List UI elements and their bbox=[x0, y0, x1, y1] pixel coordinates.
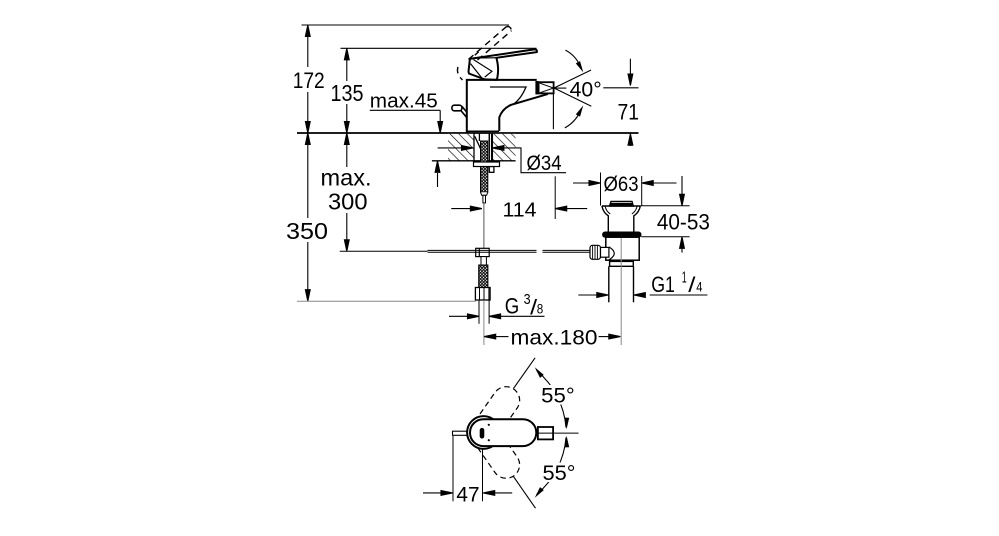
hose-end reference line bbox=[297, 300, 476, 302]
svg-text:G: G bbox=[505, 294, 520, 319]
svg-text:55°: 55° bbox=[543, 461, 576, 485]
dimension 135 bbox=[344, 48, 349, 133]
pop-up rod linkage (cross fitting) bbox=[476, 248, 490, 256]
dimension max.45 leader bbox=[370, 110, 443, 133]
dimension 40-53 bbox=[640, 176, 689, 253]
dashed handle position lower (-55) bbox=[470, 419, 520, 478]
40 degree leader bbox=[555, 87, 566, 89]
dimension 71 bbox=[628, 59, 633, 146]
svg-text:Ø63: Ø63 bbox=[604, 173, 639, 196]
pop-up rod left section bbox=[428, 249, 537, 251]
mounting shank tube bbox=[475, 133, 494, 172]
counter thickness lower arrow bbox=[435, 161, 440, 187]
flange top bbox=[602, 205, 640, 207]
svg-text:/: / bbox=[688, 274, 695, 297]
dimension Ø34 arrows bbox=[438, 146, 566, 173]
hose neck bbox=[481, 257, 486, 265]
extension lines below nut bbox=[478, 300, 480, 324]
clamp wedge bbox=[475, 136, 481, 148]
dimension 114 bbox=[451, 176, 587, 219]
svg-text:135: 135 bbox=[331, 80, 364, 106]
threaded shank rod bbox=[481, 141, 488, 192]
svg-text:172: 172 bbox=[293, 68, 325, 93]
escutcheon circle bbox=[467, 416, 500, 449]
svg-text:47: 47 bbox=[456, 482, 479, 506]
handle capsule (top view) bbox=[470, 419, 536, 446]
angle arc upper bbox=[537, 371, 567, 428]
hose axis upper bbox=[483, 203, 485, 248]
dimension max.300 bbox=[344, 133, 349, 251]
nozzle (top view) bbox=[538, 427, 553, 439]
dimension G1 1/4 bbox=[578, 293, 707, 298]
tailpipe bbox=[608, 266, 610, 302]
body bbox=[606, 237, 639, 260]
handle lever (solid) bbox=[469, 49, 537, 80]
spout inner face line bbox=[490, 87, 526, 105]
svg-text:8: 8 bbox=[537, 301, 544, 316]
dimension max.180 bbox=[484, 334, 620, 339]
handle raised (dashed) bbox=[457, 27, 511, 80]
svg-text:350: 350 bbox=[286, 218, 328, 244]
svg-text:max.: max. bbox=[321, 164, 372, 190]
centerline (top view) bbox=[537, 432, 579, 434]
svg-text:max.180: max.180 bbox=[511, 326, 598, 350]
svg-text:G1: G1 bbox=[651, 272, 675, 297]
counter underside line bbox=[432, 160, 516, 162]
clamp bar right bbox=[488, 134, 490, 169]
svg-text:40°: 40° bbox=[570, 77, 602, 101]
svg-text:300: 300 bbox=[328, 189, 368, 215]
angle arc lower bbox=[537, 438, 567, 495]
dashed handle position upper (+55) bbox=[470, 387, 520, 446]
datum mounting surface line bbox=[297, 132, 639, 134]
svg-text:114: 114 bbox=[503, 198, 537, 221]
cap bbox=[610, 201, 634, 206]
drain pull lever on body bbox=[452, 105, 462, 111]
svg-text:max.45: max.45 bbox=[370, 91, 438, 113]
55 degree fan line lower bbox=[513, 476, 535, 508]
hose threaded section bbox=[479, 265, 488, 288]
hatched counter right block bbox=[492, 133, 515, 161]
svg-text:40-53: 40-53 bbox=[657, 209, 710, 234]
dimension 350 bbox=[305, 133, 310, 301]
handle facet lines bbox=[471, 58, 497, 80]
aerator cone inside nozzle bbox=[540, 83, 554, 93]
dimension G3/8 bbox=[449, 314, 545, 319]
spout nozzle dark band bbox=[535, 81, 538, 94]
dimension Ø63 bbox=[573, 181, 677, 186]
dimension 172 bbox=[305, 25, 310, 133]
pop-up rod right section bbox=[543, 249, 591, 251]
svg-text:Ø34: Ø34 bbox=[527, 151, 562, 175]
O-ring bbox=[603, 232, 641, 237]
extension line 172 top bbox=[302, 24, 510, 26]
trumpet sides bbox=[602, 206, 608, 232]
svg-text:55°: 55° bbox=[541, 384, 575, 408]
shank washer bbox=[474, 162, 500, 167]
waste side knob bbox=[590, 245, 614, 260]
spout outlet extension line bbox=[552, 93, 554, 129]
shank rod tip bbox=[481, 192, 488, 195]
faucet body bbox=[467, 80, 548, 133]
faucet axis lower bbox=[483, 300, 485, 345]
spray angle arc upper bbox=[565, 50, 581, 69]
waste: Ø63 extension lines bbox=[600, 173, 602, 206]
hatched counter left block bbox=[448, 133, 474, 161]
spray fan apex bbox=[554, 70, 591, 106]
spray angle arc lower bbox=[565, 109, 582, 128]
pop-up waste body bbox=[602, 201, 641, 302]
dimension 47 bbox=[452, 436, 454, 501]
seal ring bbox=[610, 261, 634, 266]
tail rod (top view) bbox=[453, 431, 472, 435]
spout nozzle box bbox=[539, 82, 554, 93]
hose nut G3/8 bbox=[475, 288, 490, 301]
svg-text:71: 71 bbox=[618, 100, 640, 125]
waste pipe centerline bbox=[620, 238, 622, 345]
pop-up rod reference line bbox=[340, 250, 428, 252]
extension line 135 bbox=[341, 47, 537, 49]
svg-text:4: 4 bbox=[696, 280, 703, 295]
55 degree fan line upper bbox=[513, 358, 535, 389]
svg-text:1: 1 bbox=[682, 270, 687, 287]
lever hinge mark bbox=[480, 430, 485, 436]
